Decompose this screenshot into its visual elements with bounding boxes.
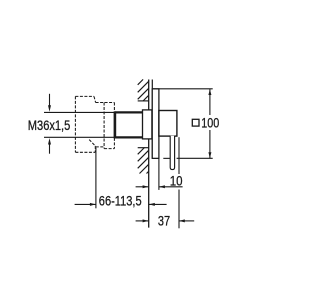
dimension 100: top extension line — [152, 88, 212, 90]
svg-text:M36x1,5: M36x1,5 — [28, 118, 71, 133]
svg-text:66-113,5: 66-113,5 — [99, 193, 142, 208]
dimension 100: dimension line — [209, 89, 211, 158]
wall hatching lower — [138, 147, 149, 173]
svg-text:10: 10 — [170, 174, 183, 189]
dimension 10: dimension line with arrows — [136, 186, 183, 188]
escutcheon plate (side view) — [152, 89, 159, 159]
sleeve tube (thick lines to wall) — [115, 112, 143, 137]
dimension 100: square symbol — [192, 119, 199, 126]
wall face line — [148, 80, 150, 228]
dimension 66-113,5: dimension line with arrows — [75, 203, 167, 205]
dimension 100: arrowheads — [208, 89, 211, 158]
concealed valve body (hidden dashed outline) — [75, 96, 114, 152]
thread tube outline (M36 spindle, thin lines) — [44, 112, 115, 137]
dimension M36x1,5: lower arrow — [49, 144, 51, 154]
wall finished-surface line — [151, 80, 153, 159]
dimension 66-113,5: extension line at thread end — [95, 148, 97, 209]
handle body — [159, 111, 177, 137]
svg-text:100: 100 — [201, 115, 219, 130]
dimension 37: dimension line with arrows — [136, 220, 195, 222]
wall hatching upper — [138, 79, 149, 101]
svg-text:37: 37 — [158, 213, 170, 228]
dimension 10: plate-front extension line — [158, 158, 160, 190]
wall collar flange — [143, 110, 152, 139]
handle lever blade — [170, 136, 174, 170]
dimension 100: bottom extension line — [163, 157, 212, 159]
sleeve end cap — [114, 111, 117, 138]
dimension M36x1,5: upper arrow — [49, 94, 51, 106]
dimension 37: right extension line — [178, 137, 180, 228]
